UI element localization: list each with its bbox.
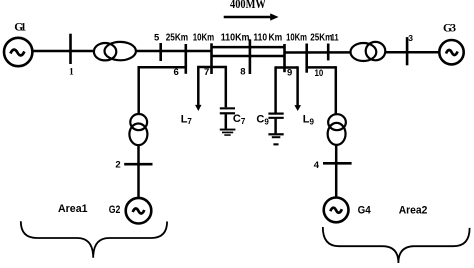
svg-text:110 Km: 110 Km <box>253 32 282 43</box>
svg-text:10: 10 <box>315 68 324 78</box>
svg-text:G1: G1 <box>14 21 26 33</box>
svg-text:1: 1 <box>69 68 74 78</box>
svg-text:10Km: 10Km <box>286 32 307 43</box>
svg-text:Area1: Area1 <box>58 203 88 215</box>
svg-text:400MW: 400MW <box>230 0 266 11</box>
svg-text:6: 6 <box>174 67 179 78</box>
svg-text:9: 9 <box>287 68 292 79</box>
svg-text:8: 8 <box>240 67 245 78</box>
svg-text:4: 4 <box>314 160 320 171</box>
svg-text:110Km: 110Km <box>221 32 250 43</box>
svg-text:5: 5 <box>154 32 160 43</box>
svg-text:25Km: 25Km <box>166 32 188 43</box>
svg-text:G3: G3 <box>443 23 456 35</box>
svg-text:25Km: 25Km <box>310 32 332 43</box>
svg-text:2: 2 <box>115 160 120 171</box>
svg-text:Area2: Area2 <box>399 205 428 217</box>
svg-text:G4: G4 <box>358 204 372 216</box>
svg-text:7: 7 <box>204 67 209 78</box>
svg-text:3: 3 <box>408 33 413 43</box>
svg-text:10Km: 10Km <box>193 32 215 43</box>
svg-text:G2: G2 <box>109 204 121 216</box>
